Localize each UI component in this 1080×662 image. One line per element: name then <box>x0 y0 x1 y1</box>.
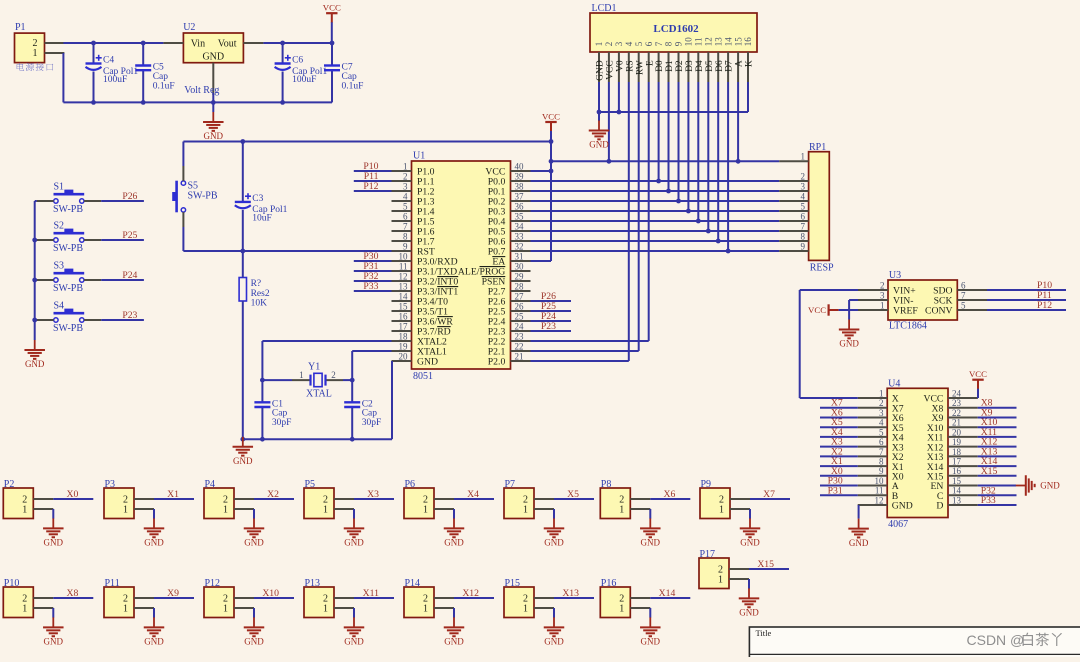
svg-text:P33: P33 <box>363 281 378 292</box>
wire lcd RS column <box>628 82 630 361</box>
svg-text:8: 8 <box>664 41 674 46</box>
u4 pin 5 X4 <box>858 436 888 438</box>
lcd pin 15 A <box>737 52 739 82</box>
svg-text:5: 5 <box>801 201 806 211</box>
ground GND P8 <box>649 518 651 528</box>
ground GND P3 <box>153 518 155 528</box>
svg-text:GND: GND <box>589 140 609 150</box>
wire XTAL1 to C2 node <box>352 350 391 352</box>
wire U2 GND to rail <box>212 93 214 102</box>
svg-text:6: 6 <box>879 437 884 447</box>
capacitor C2 <box>351 380 353 403</box>
svg-text:7: 7 <box>801 221 806 231</box>
svg-text:VCC: VCC <box>542 111 560 121</box>
wire P14 pin1 down <box>453 608 455 618</box>
pin 4 P1.3 <box>392 200 412 202</box>
svg-text:GND: GND <box>44 538 64 548</box>
wire P16 pin1 down <box>649 608 651 618</box>
svg-text:SW-PB: SW-PB <box>53 323 83 334</box>
svg-text:1: 1 <box>22 604 27 615</box>
wire lcd D3 column <box>687 82 689 211</box>
svg-text:15: 15 <box>733 37 743 47</box>
svg-text:Title: Title <box>756 628 772 638</box>
wire P17 pin1 down <box>748 579 750 589</box>
svg-text:0.1uF: 0.1uF <box>342 81 364 91</box>
capacitor C7 <box>331 43 333 67</box>
svg-text:5: 5 <box>403 201 408 211</box>
net label X14 u4r <box>978 465 1017 467</box>
svg-text:13: 13 <box>952 495 962 505</box>
svg-text:1: 1 <box>223 604 228 615</box>
svg-text:7: 7 <box>961 290 966 300</box>
svg-text:3: 3 <box>801 181 806 191</box>
svg-text:3: 3 <box>880 290 885 300</box>
svg-text:X4: X4 <box>467 489 479 500</box>
svg-text:RW: RW <box>635 60 645 75</box>
net label X7 <box>750 498 790 500</box>
junction C3 top <box>240 139 245 144</box>
svg-text:D: D <box>936 501 943 512</box>
svg-text:SW-PB: SW-PB <box>53 243 83 254</box>
svg-text:1: 1 <box>718 575 723 586</box>
svg-text:4: 4 <box>624 41 634 46</box>
wire P0.2 to RP1 <box>531 200 780 202</box>
svg-text:1: 1 <box>879 388 884 398</box>
svg-text:1: 1 <box>423 604 428 615</box>
svg-text:X13: X13 <box>562 588 579 599</box>
svg-text:100uF: 100uF <box>103 75 127 85</box>
svg-text:P1: P1 <box>15 22 26 33</box>
junction lcd vcc <box>607 159 612 164</box>
u4 pin 4 X5 <box>858 426 888 428</box>
lcd pin 7 D0 <box>658 52 660 82</box>
rp1 pin 2 <box>779 180 808 182</box>
rp1 pin 8 <box>779 240 808 242</box>
u4 pin 2 X7 <box>858 407 888 409</box>
title block <box>749 627 1080 661</box>
svg-text:S1: S1 <box>54 181 65 192</box>
svg-text:11: 11 <box>875 486 884 496</box>
overline INT1 <box>437 286 458 288</box>
svg-text:30pF: 30pF <box>272 418 292 428</box>
junction C4 bottom <box>91 100 96 105</box>
svg-text:RS: RS <box>625 60 635 72</box>
rp1 pin 1 <box>779 160 808 162</box>
wire P0.6 to RP1 <box>531 240 780 242</box>
svg-text:C6: C6 <box>292 56 303 66</box>
pin 40 VCC <box>511 170 531 172</box>
pin 26 P2.5 <box>511 310 531 312</box>
svg-text:4: 4 <box>879 418 884 428</box>
rp1 pin 6 <box>779 220 808 222</box>
lcd pin 2 VCC <box>608 52 610 82</box>
svg-text:A: A <box>735 60 745 67</box>
svg-text:Y1: Y1 <box>308 361 320 372</box>
svg-text:8: 8 <box>801 231 806 241</box>
junction gnd rail C1 <box>260 437 265 442</box>
svg-text:38: 38 <box>515 181 525 191</box>
junction D5 <box>706 229 711 234</box>
svg-text:GND: GND <box>233 456 253 466</box>
rp1 pin 3 <box>779 190 808 192</box>
svg-text:24: 24 <box>952 388 962 398</box>
wire U2 Vout to VCC node <box>263 42 332 44</box>
svg-text:GND: GND <box>544 538 564 548</box>
wire P1 pin2 to U2 Vin <box>63 42 163 44</box>
pin 29 PSEN <box>511 280 531 282</box>
wire P2.0 to RS <box>531 360 629 362</box>
resistor R? <box>239 278 246 302</box>
svg-text:VREF: VREF <box>893 306 918 317</box>
junction C5 top <box>141 41 146 46</box>
junction C2 node <box>350 378 355 383</box>
svg-text:X12: X12 <box>462 588 479 599</box>
junction gnd rail R <box>240 437 245 442</box>
lcd pin 13 D6 <box>717 52 719 82</box>
wire U1 GND pin drop <box>391 361 393 439</box>
svg-text:40: 40 <box>515 161 525 171</box>
wire lcd gnd rail <box>599 111 748 113</box>
lcd pin 14 D7 <box>727 52 729 82</box>
svg-text:1: 1 <box>619 604 624 615</box>
svg-text:X11: X11 <box>363 588 379 599</box>
wire P8 pin1 down <box>649 509 651 519</box>
svg-text:1: 1 <box>33 48 38 59</box>
net label P24 right <box>531 320 572 322</box>
wire P3 pin1 down <box>153 509 155 519</box>
svg-text:0.1uF: 0.1uF <box>153 81 175 91</box>
svg-text:1: 1 <box>719 505 724 516</box>
svg-text:8: 8 <box>403 231 408 241</box>
net label P23 right <box>531 330 572 332</box>
svg-text:X3: X3 <box>367 489 379 500</box>
wire reset node rail to RST <box>183 250 391 252</box>
svg-text:11: 11 <box>399 261 408 271</box>
capacitor C3 <box>242 142 244 203</box>
pin 36 P0.3 <box>511 210 531 212</box>
pin 22 P2.1 <box>511 350 531 352</box>
overline WR <box>437 316 453 318</box>
svg-text:Cap: Cap <box>272 409 288 419</box>
u4 pin 22 X9 <box>948 417 978 419</box>
svg-text:3: 3 <box>614 41 624 46</box>
svg-text:17: 17 <box>952 457 962 467</box>
junction C1 node <box>260 378 265 383</box>
svg-text:P33: P33 <box>981 495 996 506</box>
wire VIN- to gnd <box>849 299 858 301</box>
svg-text:SW-PB: SW-PB <box>53 283 83 294</box>
junction D7 <box>726 249 731 254</box>
pin 19 XTAL1 <box>392 350 412 352</box>
svg-text:D2: D2 <box>675 60 685 72</box>
net label X8 <box>53 597 93 599</box>
pin 15 P3.5/T1 <box>392 310 412 312</box>
svg-text:U1: U1 <box>413 151 425 162</box>
svg-text:P24: P24 <box>122 270 137 281</box>
junction gnd rail C2 <box>350 437 355 442</box>
net label P31 u4 <box>820 494 858 496</box>
svg-text:P23: P23 <box>541 321 556 332</box>
svg-text:SW-PB: SW-PB <box>188 191 218 202</box>
net label P11 <box>354 180 392 182</box>
svg-text:X2: X2 <box>267 489 279 500</box>
junction riser reset rail <box>549 139 554 144</box>
pin 20 GND <box>392 360 412 362</box>
wire lcd RW column <box>638 82 640 351</box>
pin 25 P2.4 <box>511 320 531 322</box>
svg-text:32: 32 <box>515 241 524 251</box>
svg-text:D1: D1 <box>665 60 675 72</box>
pin 10 P3.0/RXD <box>392 260 412 262</box>
svg-text:31: 31 <box>515 251 524 261</box>
pin 23 P2.2 <box>511 340 531 342</box>
svg-text:11: 11 <box>694 38 704 47</box>
u3 pin 7 SCK <box>957 299 987 301</box>
lcd pin 8 D1 <box>668 52 670 82</box>
u4 pin 6 X3 <box>858 446 888 448</box>
net label X1 u4 <box>820 465 858 467</box>
switch S2 <box>35 239 37 241</box>
svg-text:GND: GND <box>1040 481 1060 491</box>
svg-text:Cap: Cap <box>342 72 358 82</box>
overline EA <box>492 256 505 258</box>
svg-text:19: 19 <box>399 341 409 351</box>
wire P2.1 to RW <box>531 350 639 352</box>
ground GND P9 <box>749 518 751 528</box>
wire lcd D0 column <box>658 82 660 181</box>
svg-text:14: 14 <box>952 486 962 496</box>
wire VCC drop <box>331 22 333 43</box>
ground GND U4 <box>858 519 860 529</box>
u3 pin 6 SDO <box>957 289 987 291</box>
svg-text:12: 12 <box>704 37 714 46</box>
svg-text:Cap: Cap <box>153 72 169 82</box>
svg-text:9: 9 <box>801 241 806 251</box>
svg-text:15: 15 <box>952 476 962 486</box>
rp1 pin 5 <box>779 210 808 212</box>
capacitor C6 <box>282 43 284 65</box>
svg-text:GND: GND <box>740 538 760 548</box>
svg-text:GND: GND <box>849 538 869 548</box>
svg-text:1: 1 <box>423 505 428 516</box>
svg-text:21: 21 <box>515 351 524 361</box>
ground GND P15 <box>553 617 555 627</box>
svg-text:16: 16 <box>743 37 753 47</box>
pin 9 RST <box>392 250 412 252</box>
lcd pin 16 K <box>747 52 749 82</box>
net label X6 u4 <box>820 417 858 419</box>
svg-text:6: 6 <box>961 280 966 290</box>
svg-text:7: 7 <box>654 41 664 46</box>
wire lcd GND column <box>598 82 600 112</box>
pin 6 P1.5 <box>392 220 412 222</box>
svg-text:4: 4 <box>801 191 806 201</box>
svg-text:5: 5 <box>634 41 644 46</box>
svg-text:P25: P25 <box>122 230 137 241</box>
wire lcd D6 column <box>717 82 719 241</box>
ground GND P7 <box>553 518 555 528</box>
svg-text:LCD1602: LCD1602 <box>653 23 699 35</box>
svg-text:X5: X5 <box>567 489 579 500</box>
pin 2 P1.1 <box>392 180 412 182</box>
svg-text:GND: GND <box>417 357 438 368</box>
svg-text:D6: D6 <box>715 60 725 72</box>
svg-text:10: 10 <box>684 37 694 47</box>
net label P30 u4 <box>820 485 858 487</box>
net label X0 u4 <box>820 475 858 477</box>
svg-text:7: 7 <box>403 221 408 231</box>
pin 37 P0.2 <box>511 200 531 202</box>
wire P0.0 to RP1 <box>531 180 780 182</box>
svg-text:23: 23 <box>515 331 525 341</box>
net label X3 u4 <box>820 446 858 448</box>
switch S4 <box>35 319 37 321</box>
wire P15 pin1 down <box>553 608 555 618</box>
wire XTAL2 to C1 node <box>262 340 391 342</box>
svg-text:VCC: VCC <box>606 60 616 80</box>
wire P6 pin1 down <box>453 509 455 519</box>
net label X14 <box>650 597 690 599</box>
switch S3 <box>35 279 37 281</box>
svg-text:1: 1 <box>403 161 408 171</box>
net label P12 u3 <box>987 309 1066 311</box>
svg-text:S4: S4 <box>54 300 65 311</box>
svg-text:X8: X8 <box>66 588 78 599</box>
pin 24 P2.3 <box>511 330 531 332</box>
svg-text:GND: GND <box>344 637 364 647</box>
svg-text:GND: GND <box>641 637 661 647</box>
ground GND P17 <box>748 588 750 598</box>
pin 28 P2.7 <box>511 290 531 292</box>
svg-text:2: 2 <box>403 171 408 181</box>
wire vcc rail to RP1 <box>551 160 779 162</box>
u3 pin 3 VIN- <box>858 299 888 301</box>
svg-text:2: 2 <box>604 42 614 47</box>
svg-text:Vout: Vout <box>218 39 237 50</box>
junction D3 <box>686 209 691 214</box>
wire lcd V0 column <box>618 82 620 112</box>
svg-text:XTAL: XTAL <box>306 388 332 399</box>
junction D1 <box>666 189 671 194</box>
junction rail S2 <box>32 238 37 243</box>
svg-text:30: 30 <box>515 261 525 271</box>
pin 18 XTAL2 <box>392 340 412 342</box>
lcd pin 5 RW <box>638 52 640 82</box>
net label P30 <box>354 260 392 262</box>
svg-text:Cap: Cap <box>362 409 378 419</box>
svg-text:6: 6 <box>801 211 806 221</box>
label 电源接口 <box>17 63 54 71</box>
svg-text:C4: C4 <box>103 56 114 66</box>
net label P33 <box>354 290 392 292</box>
pin 33 P0.6 <box>511 240 531 242</box>
svg-text:GND: GND <box>839 339 859 349</box>
svg-text:C3: C3 <box>252 194 263 204</box>
wire lcd K column <box>747 82 749 112</box>
svg-text:13: 13 <box>713 37 723 47</box>
svg-text:D4: D4 <box>695 60 705 72</box>
svg-text:GND: GND <box>544 637 564 647</box>
u3 pin 5 CONV <box>957 309 987 311</box>
u4 pin 9 X0 <box>858 475 888 477</box>
u4 pin 1 X <box>858 397 888 399</box>
svg-text:4: 4 <box>403 191 408 201</box>
svg-text:36: 36 <box>515 201 525 211</box>
svg-text:26: 26 <box>515 301 525 311</box>
net label X15 <box>749 568 789 570</box>
lcd pin 11 D4 <box>697 52 699 82</box>
net label X8 u4r <box>978 407 1017 409</box>
svg-text:D5: D5 <box>705 60 715 72</box>
svg-text:1: 1 <box>323 505 328 516</box>
pin 21 P2.0 <box>511 360 531 362</box>
wire P1 pin1 down <box>62 53 64 102</box>
svg-text:VCC: VCC <box>969 369 987 379</box>
net label X13 <box>554 597 594 599</box>
svg-text:GND: GND <box>596 60 606 81</box>
net label P26 right <box>531 300 572 302</box>
net label X4 <box>454 498 494 500</box>
svg-text:1: 1 <box>223 505 228 516</box>
svg-text:4067: 4067 <box>888 519 908 530</box>
net label X5 u4 <box>820 426 858 428</box>
ground GND U3 <box>848 320 850 330</box>
svg-text:6: 6 <box>403 211 408 221</box>
svg-text:1: 1 <box>801 152 806 162</box>
junction C6 top <box>280 41 285 46</box>
u3 pin 2 VIN+ <box>858 289 888 291</box>
wire lcd D5 column <box>707 82 709 231</box>
svg-text:37: 37 <box>515 191 525 201</box>
svg-text:V0: V0 <box>616 60 626 72</box>
net label X15 u4r <box>978 475 1017 477</box>
svg-text:20: 20 <box>952 427 962 437</box>
svg-text:X6: X6 <box>663 489 675 500</box>
pin 32 P0.7 <box>511 250 531 252</box>
wire R top <box>242 251 244 278</box>
ground GND P16 <box>649 617 651 627</box>
u4 pin 13 D <box>948 504 978 506</box>
net label X1 <box>154 498 194 500</box>
svg-text:39: 39 <box>515 171 525 181</box>
svg-text:3: 3 <box>879 408 884 418</box>
svg-text:1: 1 <box>323 604 328 615</box>
svg-text:17: 17 <box>399 321 409 331</box>
svg-text:VCC: VCC <box>323 3 341 13</box>
u4 pin 14 C <box>948 494 978 496</box>
svg-text:1: 1 <box>123 505 128 516</box>
svg-text:S3: S3 <box>54 260 65 271</box>
junction D2 <box>676 199 681 204</box>
pin 35 P0.4 <box>511 220 531 222</box>
junction U2 gnd <box>211 100 216 105</box>
svg-text:9: 9 <box>674 41 684 46</box>
lcd pin 1 GND <box>598 52 600 82</box>
net label X7 u4 <box>820 407 858 409</box>
net label X2 u4 <box>820 455 858 457</box>
svg-text:K: K <box>745 60 755 67</box>
junction riser vcc pin <box>549 169 554 174</box>
u4 pin 16 X15 <box>948 475 978 477</box>
net label P33 u4r <box>978 504 1017 506</box>
svg-text:1: 1 <box>523 604 528 615</box>
wire VCC to U1 pin40 <box>531 170 552 172</box>
svg-text:P23: P23 <box>122 310 137 321</box>
svg-text:GND: GND <box>202 51 224 62</box>
svg-text:28: 28 <box>515 281 525 291</box>
svg-text:U2: U2 <box>183 22 195 33</box>
svg-text:22: 22 <box>952 408 961 418</box>
